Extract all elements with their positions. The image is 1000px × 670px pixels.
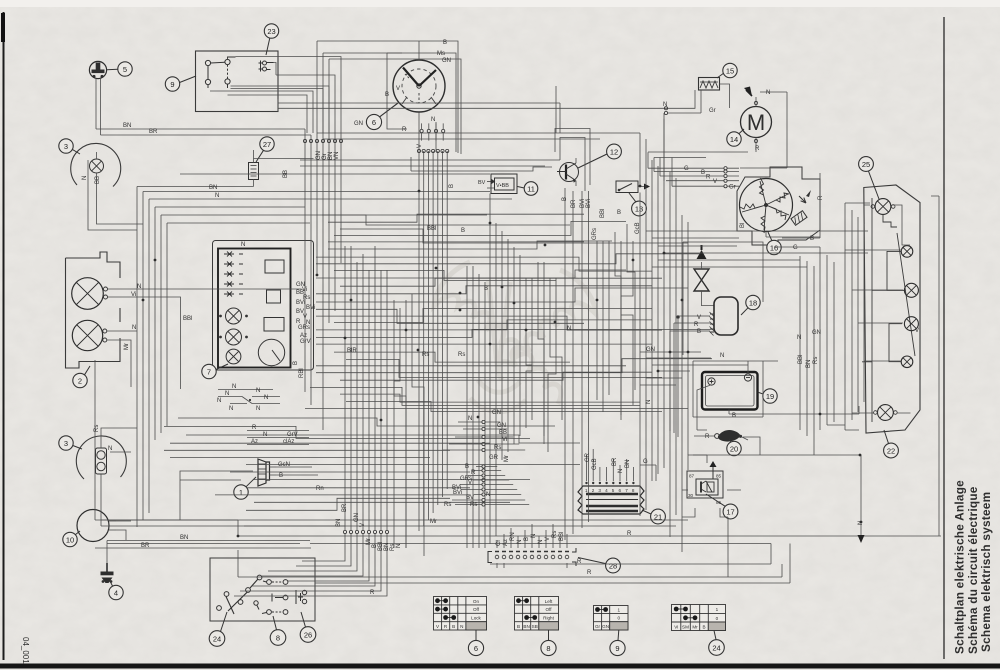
svg-text:N: N — [137, 284, 141, 290]
svg-text:GRs: GRs — [298, 325, 310, 331]
svg-text:R: R — [577, 559, 582, 565]
svg-text:GN: GN — [646, 347, 655, 353]
svg-text:1: 1 — [585, 488, 588, 493]
svg-text:BVi: BVi — [453, 490, 462, 496]
svg-text:1: 1 — [716, 607, 719, 612]
wire left trunk verticals — [137, 187, 167, 528]
regulator item 18 — [685, 297, 738, 336]
wire top horizontals 133-166 — [180, 133, 640, 174]
svg-text:8: 8 — [546, 644, 550, 653]
svg-text:GrV: GrV — [300, 339, 311, 345]
callout 6b — [468, 640, 483, 655]
svg-text:Vi: Vi — [674, 624, 678, 629]
svg-text:N: N — [256, 388, 260, 394]
callout 20 — [727, 439, 741, 456]
svg-text:B: B — [452, 624, 455, 629]
callout 10 — [63, 531, 80, 547]
callout 3b — [59, 436, 82, 450]
callout 23 — [264, 24, 278, 55]
svg-text:4: 4 — [114, 588, 118, 597]
svg-text:20: 20 — [730, 444, 738, 453]
svg-text:Rs: Rs — [444, 502, 451, 508]
watermark eagle — [434, 262, 596, 412]
flasher box item 13 — [616, 181, 650, 193]
wire box24 incoming fan — [234, 534, 387, 596]
svg-text:R: R — [402, 127, 407, 133]
svg-text:V•BB: V•BB — [496, 183, 509, 189]
svg-text:SM: SM — [682, 624, 689, 629]
svg-text:12: 12 — [610, 147, 618, 156]
svg-text:V: V — [417, 144, 423, 148]
svg-text:BN: BN — [123, 123, 131, 129]
svg-text:G: G — [684, 166, 689, 172]
svg-text:N: N — [663, 102, 667, 108]
terminal stubs bottom fan — [343, 530, 388, 533]
wire 21 connector stubs — [587, 449, 657, 481]
svg-text:GcN: GcN — [278, 462, 290, 468]
svg-text:Rs: Rs — [422, 352, 429, 358]
svg-text:Vi: Vi — [502, 437, 507, 443]
svg-text:N: N — [256, 406, 260, 412]
svg-text:R: R — [694, 322, 699, 328]
svg-text:B: B — [701, 170, 705, 176]
svg-text:N: N — [396, 544, 402, 548]
svg-text:BB: BB — [283, 170, 289, 178]
svg-text:Cl: Cl — [496, 540, 502, 546]
svg-text:1: 1 — [618, 608, 621, 613]
svg-text:N: N — [264, 395, 268, 401]
svg-text:GcB: GcB — [592, 458, 598, 470]
svg-text:BR: BR — [149, 129, 158, 135]
svg-text:R: R — [706, 175, 711, 181]
svg-text:B: B — [702, 624, 705, 629]
svg-text:Rs: Rs — [813, 357, 819, 364]
callout 9 — [165, 76, 196, 91]
svg-text:16: 16 — [770, 243, 778, 252]
svg-text:R: R — [627, 531, 632, 537]
svg-text:BN: BN — [625, 460, 631, 468]
svg-text:B: B — [484, 286, 488, 292]
svg-text:GRs: GRs — [592, 228, 598, 240]
wire left low horizontals — [95, 520, 345, 526]
svg-text:N: N — [567, 326, 571, 332]
instrument panel item 7 — [213, 241, 314, 371]
svg-text:3: 3 — [64, 439, 68, 448]
svg-text:BBl: BBl — [427, 226, 436, 232]
callout 17 — [706, 494, 738, 519]
svg-text:BN: BN — [806, 360, 812, 368]
callout 9b — [610, 640, 625, 655]
terminal stub column mid — [482, 420, 485, 506]
svg-text:BB: BB — [499, 430, 507, 436]
svg-text:V: V — [360, 523, 366, 527]
wire N drop arrow right — [860, 455, 862, 535]
wire connector27 column — [305, 41, 341, 430]
svg-text:15: 15 — [726, 66, 734, 75]
svg-text:Az: Az — [251, 439, 258, 445]
svg-text:R: R — [252, 425, 257, 431]
svg-text:GN: GN — [497, 423, 506, 429]
svg-text:3: 3 — [64, 142, 68, 151]
svg-text:24: 24 — [712, 643, 720, 652]
wire labels — [82, 40, 919, 596]
svg-text:85: 85 — [716, 474, 722, 479]
svg-text:BR: BR — [141, 543, 150, 549]
svg-text:B: B — [449, 184, 455, 188]
wire ignition left loop R — [387, 53, 436, 152]
parking lamp item 3 top — [71, 143, 121, 192]
svg-text:BBl: BBl — [600, 209, 606, 218]
svg-text:24: 24 — [213, 634, 221, 643]
svg-text:BN: BN — [209, 185, 217, 191]
svg-text:RBl: RBl — [299, 368, 305, 378]
svg-text:22: 22 — [887, 446, 895, 455]
svg-text:17: 17 — [726, 507, 734, 516]
svg-text:Ms: Ms — [437, 51, 445, 57]
svg-text:GcB: GcB — [635, 222, 641, 234]
svg-text:Mr: Mr — [692, 624, 698, 629]
svg-text:28: 28 — [609, 561, 617, 570]
svg-text:B: B — [524, 537, 530, 541]
svg-text:B: B — [732, 413, 736, 419]
wire right column stub joins — [443, 422, 529, 505]
svg-text:GN: GN — [442, 58, 451, 64]
pilot lamp item 10 — [77, 510, 116, 542]
bottom black bar — [0, 664, 1000, 669]
svg-text:5: 5 — [123, 65, 127, 74]
starter relay item 17 — [687, 461, 723, 505]
callout 8b — [541, 640, 556, 655]
wire mesh verticals center — [345, 188, 635, 556]
svg-text:0: 0 — [716, 616, 719, 621]
callout 19 — [758, 389, 778, 403]
svg-text:Schaltplan elektrische Anlage: Schaltplan elektrische Anlage — [953, 480, 967, 654]
callout 27 — [256, 137, 274, 162]
svg-text:N: N — [797, 335, 801, 341]
svg-text:BN: BN — [523, 624, 529, 629]
svg-text:Gr: Gr — [729, 185, 736, 191]
wire BN BR horn to center — [96, 129, 311, 135]
svg-text:18: 18 — [749, 298, 757, 307]
callout 1 — [234, 477, 256, 499]
svg-text:8: 8 — [632, 488, 635, 493]
wire connector1 leads — [180, 467, 318, 520]
svg-text:B: B — [385, 92, 389, 98]
svg-text:04_001: 04_001 — [21, 637, 30, 664]
svg-text:9: 9 — [170, 80, 174, 89]
svg-text:Bl: Bl — [740, 223, 746, 228]
svg-text:BVi: BVi — [306, 305, 315, 311]
switch table for item 6 — [434, 597, 487, 631]
callout 15 — [717, 63, 737, 78]
multi connector item 21 — [578, 482, 644, 514]
svg-text:R: R — [705, 434, 710, 440]
connector item 1 — [258, 459, 276, 486]
svg-text:Rs: Rs — [552, 531, 558, 538]
svg-text:23: 23 — [267, 27, 275, 36]
connector item 27 — [249, 163, 259, 180]
callout 12 — [578, 144, 621, 168]
svg-text:BVi: BVi — [586, 199, 592, 208]
callout 28 — [578, 558, 620, 573]
wire pilot10 ground4 runs — [95, 521, 311, 563]
svg-text:N: N — [618, 469, 624, 473]
svg-text:B: B — [279, 473, 283, 479]
ignition switch item 6 — [393, 60, 445, 112]
wire box9 right exits — [210, 57, 341, 133]
svg-text:Mr: Mr — [366, 538, 372, 545]
wire mesh horizontals upper — [305, 214, 712, 411]
svg-text:N: N — [225, 391, 229, 397]
terminal stubs ignition — [417, 149, 448, 152]
svg-text:R: R — [755, 146, 760, 152]
svg-text:BR: BR — [342, 503, 348, 512]
svg-text:clAz: clAz — [283, 439, 294, 445]
svg-text:BV: BV — [466, 495, 474, 501]
wire box9 to fuse N run — [278, 84, 730, 113]
wire right trunk verticals — [640, 113, 688, 552]
svg-text:N: N — [538, 540, 544, 544]
switch item 23 — [259, 61, 274, 72]
svg-text:V: V — [713, 179, 717, 185]
wire lamp3bottom leads — [101, 428, 238, 520]
svg-text:Left: Left — [545, 599, 553, 604]
svg-text:Rn: Rn — [316, 486, 324, 492]
svg-text:R: R — [818, 195, 824, 200]
callout 18 — [741, 295, 760, 315]
switch table for item 8 — [515, 597, 559, 631]
wire transistor loops — [555, 129, 590, 192]
svg-text:R: R — [587, 570, 592, 576]
wire ignition stub row upper — [420, 129, 445, 132]
callout 5 — [107, 62, 133, 76]
svg-text:B: B — [697, 329, 701, 335]
callout 14 — [727, 129, 744, 146]
ground item 4 — [101, 563, 114, 583]
svg-text:Right: Right — [543, 616, 554, 621]
svg-text:Az: Az — [503, 539, 509, 546]
svg-text:25: 25 — [862, 160, 870, 169]
horn H1 (item 5) — [89, 61, 106, 78]
headlamp cluster item 2 — [66, 252, 121, 368]
terminal strip item 28 — [488, 548, 576, 566]
svg-text:V: V — [396, 86, 400, 92]
svg-text:BN: BN — [180, 535, 188, 541]
svg-text:BBl: BBl — [559, 532, 565, 541]
wire horn leads — [96, 79, 101, 135]
svg-text:Schéma du circuit électrique: Schéma du circuit électrique — [966, 486, 980, 654]
callout 16 — [767, 232, 781, 255]
svg-text:N: N — [486, 492, 490, 498]
svg-text:BR: BR — [571, 199, 577, 208]
wire strip28 stubs — [497, 524, 567, 568]
svg-text:B: B — [293, 361, 299, 365]
svg-text:3: 3 — [598, 488, 601, 493]
svg-text:GR: GR — [585, 452, 591, 462]
svg-text:N: N — [215, 193, 219, 199]
svg-text:B: B — [461, 228, 465, 234]
callout 3 — [59, 139, 80, 154]
svg-text:27: 27 — [263, 140, 271, 149]
svg-text:M: M — [747, 110, 765, 135]
svg-text:N: N — [468, 416, 472, 422]
svg-text:1: 1 — [239, 488, 243, 497]
svg-text:Schema elektrisch systeem: Schema elektrisch systeem — [979, 492, 993, 652]
wire ignition terminal fan — [419, 151, 447, 531]
switch box item 9 — [196, 51, 279, 112]
wire 27 connector leads — [137, 150, 314, 187]
svg-text:5: 5 — [612, 488, 615, 493]
callout 25 — [859, 157, 879, 199]
svg-text:2: 2 — [78, 376, 82, 385]
svg-text:26: 26 — [304, 630, 312, 639]
callout 21 — [642, 509, 665, 524]
svg-text:Mr: Mr — [430, 519, 437, 525]
svg-text:Mr: Mr — [124, 343, 130, 350]
wire lamp3top leads — [88, 186, 143, 230]
wire left trunk horizontals — [143, 192, 512, 224]
terminal stubs column 27 — [303, 139, 342, 142]
right separator rule — [943, 17, 945, 659]
svg-text:N: N — [263, 432, 267, 438]
wire switch23 leads — [556, 86, 560, 133]
wire rear lamp feeds — [827, 203, 911, 430]
svg-text:V: V — [545, 537, 551, 541]
svg-text:Rs: Rs — [470, 502, 477, 508]
svg-text:Off: Off — [473, 607, 480, 612]
svg-text:Gr: Gr — [595, 624, 601, 629]
svg-text:GN: GN — [492, 410, 501, 416]
horn item 20 — [694, 430, 748, 442]
svg-text:On: On — [473, 599, 480, 604]
svg-text:N: N — [531, 534, 537, 538]
svg-text:BVi: BVi — [296, 300, 305, 306]
fuse item 15 — [699, 78, 720, 91]
CDI box item 11 — [478, 174, 517, 194]
svg-text:BBl: BBl — [798, 355, 804, 364]
wire ignition top B Ms GN — [317, 41, 461, 154]
wire mid-left R N Az cluster — [247, 431, 309, 445]
svg-text:N: N — [460, 624, 463, 629]
svg-text:Off: Off — [545, 607, 552, 612]
wire N-switch cluster — [218, 390, 280, 404]
svg-text:GN: GN — [812, 330, 821, 336]
svg-text:G: G — [643, 459, 648, 465]
svg-text:N: N — [431, 117, 435, 123]
callout 13 — [629, 193, 646, 216]
svg-text:N: N — [241, 242, 245, 248]
dimmer switch item 26 — [296, 590, 307, 604]
svg-text:N: N — [646, 400, 652, 404]
starter motor item 14 — [741, 87, 772, 148]
svg-text:8: 8 — [276, 633, 280, 642]
svg-text:BN: BN — [336, 519, 342, 527]
svg-text:N: N — [217, 398, 221, 404]
svg-text:BBl: BBl — [183, 316, 192, 322]
svg-text:87: 87 — [689, 474, 695, 479]
svg-text:BR: BR — [612, 457, 618, 466]
svg-text:V: V — [697, 315, 701, 321]
wire mid bottom horizontals — [107, 520, 941, 583]
svg-text:13: 13 — [635, 204, 643, 213]
svg-text:RN: RN — [510, 532, 516, 541]
svg-text:Gr: Gr — [709, 108, 716, 114]
callout 26 — [300, 612, 316, 642]
svg-text:B: B — [465, 464, 469, 470]
svg-text:GN: GN — [602, 624, 609, 629]
tail lamp item 3 bottom — [76, 436, 126, 488]
svg-text:4: 4 — [605, 488, 608, 493]
callout 11 — [518, 182, 538, 196]
callout 8 — [270, 616, 286, 645]
svg-text:Rs: Rs — [94, 425, 100, 432]
svg-text:N: N — [858, 521, 864, 525]
svg-text:B: B — [443, 40, 447, 46]
svg-text:B: B — [562, 197, 568, 201]
callout 24b — [709, 640, 725, 656]
svg-text:GR: GR — [489, 455, 499, 461]
svg-text:6: 6 — [372, 118, 376, 127]
svg-text:B: B — [810, 236, 814, 242]
wire mesh horizontals lower-left band — [164, 418, 580, 510]
svg-text:G: G — [793, 245, 798, 251]
svg-text:N: N — [232, 384, 236, 390]
svg-text:9: 9 — [615, 644, 619, 653]
svg-text:BlR: BlR — [347, 348, 357, 354]
svg-text:6: 6 — [619, 488, 622, 493]
svg-text:14: 14 — [730, 135, 738, 144]
svg-text:0: 0 — [618, 616, 621, 621]
svg-text:Lock: Lock — [471, 616, 481, 621]
callout 6 — [366, 103, 398, 130]
callout 4 — [109, 581, 123, 600]
svg-text:10: 10 — [66, 535, 74, 544]
flywheel magneto item 16 — [737, 167, 820, 245]
svg-text:2: 2 — [592, 488, 595, 493]
svg-text:Rs: Rs — [494, 445, 501, 451]
svg-text:N: N — [517, 540, 523, 544]
battery item 19 — [702, 372, 758, 410]
wire relay17 leads — [682, 455, 741, 577]
switch table for item 24 — [672, 605, 726, 631]
svg-text:Rs: Rs — [458, 352, 465, 358]
svg-text:GrV: GrV — [287, 432, 298, 438]
callout 22 — [884, 430, 899, 458]
scan edge line left — [2, 12, 5, 660]
svg-text:N: N — [720, 353, 724, 359]
wire V run ignition to transistor — [411, 157, 552, 171]
svg-text:R: R — [370, 590, 375, 596]
transistor item 12 — [557, 158, 579, 186]
svg-text:19: 19 — [766, 392, 774, 401]
caption vertical text right — [953, 480, 994, 654]
svg-text:N: N — [229, 406, 233, 412]
svg-text:BV: BV — [478, 180, 486, 186]
svg-text:N: N — [108, 446, 112, 452]
svg-text:GN: GN — [354, 121, 363, 127]
callout 7 — [202, 364, 228, 379]
svg-text:V: V — [468, 480, 472, 486]
svg-text:Vi: Vi — [131, 292, 136, 298]
svg-text:GN: GN — [354, 513, 360, 522]
svg-text:7: 7 — [207, 367, 211, 376]
check valve — [694, 245, 714, 306]
svg-text:N: N — [82, 176, 88, 180]
svg-text:BB: BB — [95, 176, 101, 184]
wire right area horizontals — [640, 92, 939, 536]
rear lamp cluster items 22 25 — [862, 185, 920, 433]
svg-text:7: 7 — [625, 488, 628, 493]
